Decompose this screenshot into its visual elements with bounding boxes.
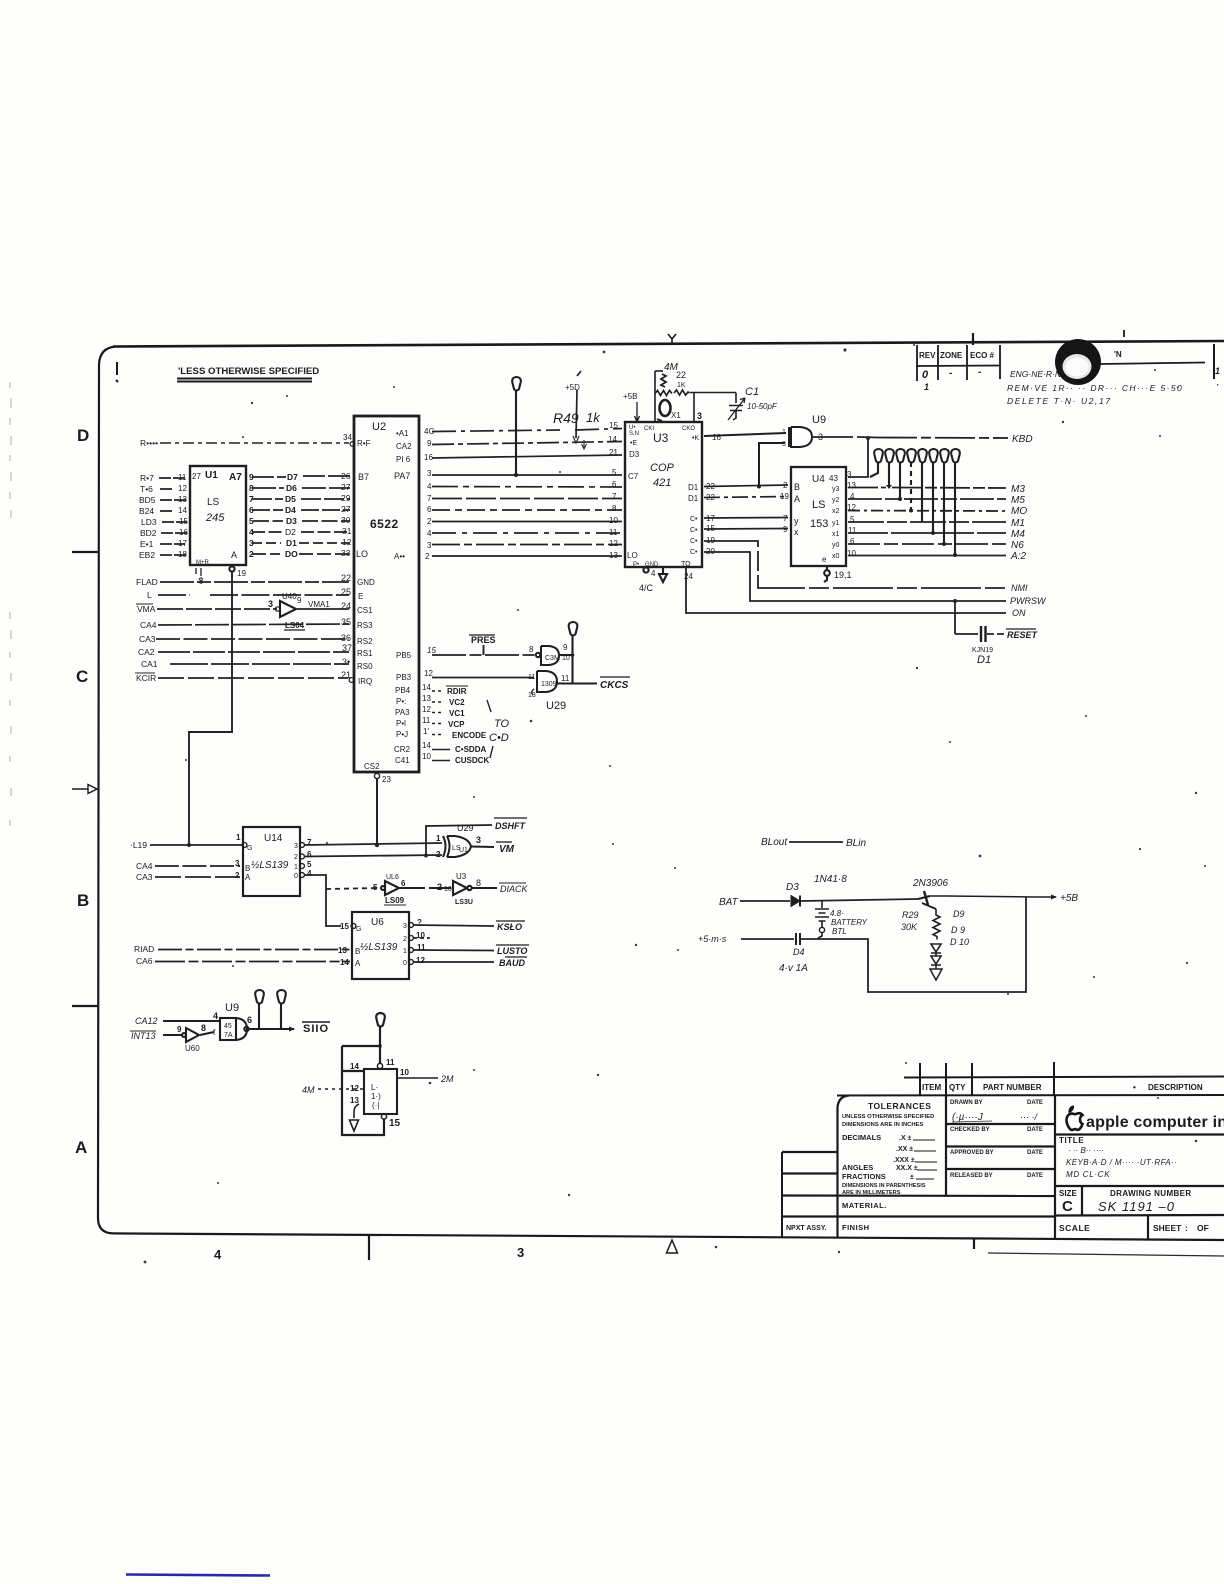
svg-text:•E: •E [630, 440, 637, 447]
svg-text:BLout: BLout [761, 837, 788, 848]
svg-text:34: 34 [343, 433, 352, 442]
svg-text:4: 4 [651, 569, 656, 578]
svg-text:31: 31 [342, 526, 352, 536]
svg-text:U2: U2 [372, 421, 386, 433]
svg-text:15: 15 [179, 517, 188, 526]
svg-text:'LESS OTHERWISE SPECIFIED: 'LESS OTHERWISE SPECIFIED [178, 366, 319, 377]
svg-text:LD3: LD3 [141, 517, 157, 527]
svg-text:421: 421 [653, 477, 671, 489]
svg-text:245: 245 [205, 512, 225, 524]
svg-text:26: 26 [341, 471, 351, 481]
svg-text:D4: D4 [793, 947, 805, 957]
svg-text:36: 36 [341, 633, 351, 643]
svg-text:CA2: CA2 [396, 442, 412, 451]
svg-text:SK 1191 –0: SK 1191 –0 [1098, 1199, 1175, 1214]
svg-text:4: 4 [307, 869, 312, 878]
svg-text:2: 2 [403, 936, 407, 943]
wire KCIR to IRQ [158, 677, 348, 679]
connector flags row (8) [870, 449, 960, 557]
svg-text:D1: D1 [286, 538, 297, 548]
svg-text:L: L [147, 590, 152, 600]
svg-text:153: 153 [810, 518, 828, 530]
svg-text:U40: U40 [282, 592, 297, 601]
svg-text:B24: B24 [139, 506, 154, 516]
svg-text:A: A [245, 873, 251, 882]
zone tick left y1006 [72, 1005, 98, 1007]
svg-text:R29: R29 [902, 910, 919, 920]
svg-text:y3: y3 [832, 486, 840, 493]
U16 output nets KSTO/LUSTO/BAUD [413, 925, 494, 962]
sheet border frame [98, 347, 115, 1234]
svg-text:1: 1 [782, 429, 786, 436]
svg-text:PB3: PB3 [396, 673, 412, 682]
svg-text:6: 6 [249, 505, 254, 515]
wire L [158, 594, 349, 596]
svg-text:A: A [75, 1138, 87, 1157]
svg-text:1k: 1k [586, 410, 601, 425]
svg-text:D5: D5 [285, 494, 296, 504]
svg-text:2N3906: 2N3906 [912, 878, 948, 889]
svg-text:DO: DO [285, 549, 298, 559]
svg-text:C1: C1 [745, 386, 759, 398]
svg-text:XX.X ±: XX.X ± [896, 1165, 918, 1172]
svg-text:DESCRIPTION: DESCRIPTION [1148, 1083, 1203, 1092]
svg-text:2: 2 [436, 850, 441, 859]
svg-text:CA3: CA3 [136, 872, 153, 882]
svg-text:6: 6 [401, 879, 406, 888]
svg-text:M5: M5 [1011, 495, 1025, 506]
buffer U1 LS245 [190, 466, 246, 565]
svg-text:DATE: DATE [1027, 1127, 1043, 1133]
svg-text:1K: 1K [677, 382, 686, 389]
svg-text:1: 1 [294, 864, 298, 871]
svg-text:•K: •K [692, 435, 699, 442]
U2 IRQ pin bubble [349, 678, 354, 683]
svg-text:4M: 4M [302, 1085, 315, 1095]
gate U29a [529, 643, 573, 665]
svg-text:D3: D3 [286, 516, 297, 526]
svg-text:7: 7 [783, 514, 788, 523]
svg-text:6: 6 [307, 850, 312, 859]
svg-text:3: 3 [476, 835, 481, 845]
transistor Q1 2N3906 [912, 878, 1078, 909]
wire CA4 [158, 624, 349, 625]
svg-text:apple computer in: apple computer in [1086, 1114, 1224, 1131]
svg-text:14: 14 [422, 741, 431, 750]
svg-text:CHECKED BY: CHECKED BY [950, 1127, 990, 1133]
VIA U2 6522 [354, 416, 419, 772]
svg-text:4: 4 [214, 1247, 222, 1262]
svg-text:KJN19: KJN19 [972, 647, 993, 654]
svg-text:2: 2 [427, 517, 432, 526]
svg-text:P•: P• [633, 562, 639, 568]
svg-text:6: 6 [247, 1015, 252, 1025]
svg-text:PB5: PB5 [396, 651, 412, 660]
wire PB5 to U29a [396, 646, 536, 660]
svg-text:4: 4 [213, 1011, 218, 1021]
svg-text:U9: U9 [225, 1002, 239, 1014]
wire VMA1 to CS1 [297, 608, 349, 610]
wires into U14 [150, 845, 242, 877]
svg-text:VC2: VC2 [449, 698, 465, 707]
zone tick bottom x369 [368, 1236, 370, 1260]
svg-text:C•: C• [690, 516, 698, 523]
svg-text:.XXX ±: .XXX ± [893, 1157, 915, 1164]
svg-text:+5B: +5B [623, 392, 637, 401]
bus D7-D0 from U1 to U2 [252, 476, 350, 554]
svg-text:13: 13 [338, 946, 347, 955]
net DSHFT [426, 818, 527, 855]
svg-text:BAUD: BAUD [499, 958, 525, 968]
svg-text:G: G [247, 845, 252, 852]
svg-text:22: 22 [676, 370, 686, 380]
svg-text:15: 15 [609, 421, 618, 430]
svg-text:B: B [77, 891, 89, 910]
svg-text:A: A [355, 959, 361, 968]
svg-text:U3: U3 [653, 431, 669, 445]
svg-text:1': 1' [423, 727, 429, 736]
svg-text:D3: D3 [629, 450, 640, 459]
wire RES to U2 pin 34 [140, 433, 355, 448]
svg-text:NMI: NMI [1011, 583, 1028, 593]
svg-text:3: 3 [268, 599, 273, 609]
svg-text:RDIR: RDIR [447, 687, 467, 696]
svg-text:12: 12 [609, 539, 618, 548]
svg-text:B: B [794, 482, 800, 492]
punch hole [1055, 339, 1101, 385]
svg-text:CS2: CS2 [364, 762, 380, 771]
svg-text:DRAWN BY: DRAWN BY [950, 1100, 983, 1106]
svg-text:SHEET: SHEET [1153, 1223, 1182, 1233]
svg-text:•: • [1133, 1083, 1136, 1092]
wire CA3 [156, 638, 349, 640]
svg-text:16: 16 [179, 528, 188, 537]
svg-text:13: 13 [528, 692, 536, 699]
svg-text:P•:: P•: [396, 697, 406, 706]
svg-text:ARE IN MILLIMETERS: ARE IN MILLIMETERS [842, 1190, 901, 1196]
U2 right stub nets RDIR..CUSDCK [432, 691, 450, 761]
svg-text:B: B [355, 947, 360, 956]
svg-text:VC1: VC1 [449, 709, 465, 718]
svg-text:4·v 1A: 4·v 1A [779, 963, 808, 974]
svg-text:23: 23 [382, 775, 391, 784]
svg-text:FRACTIONS: FRACTIONS [842, 1172, 886, 1181]
svg-text:3: 3 [697, 411, 702, 421]
svg-text:ECO #: ECO # [970, 351, 995, 360]
svg-text:10: 10 [400, 1068, 409, 1077]
svg-text:'N: 'N [1114, 350, 1122, 359]
svg-text:1309: 1309 [541, 681, 557, 688]
net CKCS [600, 677, 630, 691]
svg-text:13: 13 [422, 694, 431, 703]
svg-text:3: 3 [782, 441, 786, 448]
svg-text:D3: D3 [786, 882, 799, 893]
microcontroller U3 COP421 [625, 422, 702, 567]
svg-text:CA4: CA4 [136, 861, 153, 871]
svg-text:4: 4 [427, 529, 432, 538]
svg-text:22: 22 [706, 482, 715, 491]
svg-text:DATE: DATE [1027, 1150, 1043, 1156]
svg-text:PB4: PB4 [395, 686, 411, 695]
svg-text:SIZE: SIZE [1059, 1189, 1077, 1198]
svg-text:RELEASED BY: RELEASED BY [950, 1173, 993, 1179]
svg-text:U60: U60 [185, 1044, 200, 1053]
wire CA2 [158, 651, 349, 653]
svg-text:19: 19 [237, 569, 246, 578]
svg-text:LS: LS [207, 497, 220, 508]
svg-text:12: 12 [422, 705, 431, 714]
feedback loop wire [342, 1046, 384, 1135]
svg-text:x: x [794, 527, 799, 537]
svg-text:C•D: C•D [489, 732, 509, 744]
svg-text:MATERIAL.: MATERIAL. [842, 1201, 887, 1210]
svg-text:8: 8 [529, 645, 534, 654]
svg-text:1: 1 [1215, 366, 1220, 376]
svg-text:14: 14 [340, 958, 349, 967]
svg-text:1: 1 [924, 382, 929, 392]
svg-text:½LS139: ½LS139 [251, 860, 289, 871]
svg-text:5: 5 [307, 860, 312, 869]
svg-text:33: 33 [341, 548, 351, 558]
svg-text:T•6: T•6 [140, 484, 153, 494]
svg-text:C•SDDA: C•SDDA [455, 745, 486, 754]
svg-text:BTL: BTL [832, 927, 847, 936]
svg-text:30K: 30K [901, 922, 918, 932]
svg-text:PI 6: PI 6 [396, 455, 411, 464]
decoder U4 LS153 [791, 467, 846, 566]
svg-text:CKO: CKO [682, 426, 695, 432]
svg-text:x1: x1 [832, 531, 840, 538]
svg-text:KCIR: KCIR [136, 673, 156, 683]
svg-text:U14: U14 [264, 833, 283, 844]
svg-text:12: 12 [178, 484, 187, 493]
svg-text:±: ± [910, 1174, 914, 1181]
small empty table at left [781, 1152, 783, 1238]
connector flag to PA7 line [512, 377, 521, 477]
svg-text:U29: U29 [457, 823, 474, 833]
svg-text:14: 14 [178, 506, 187, 515]
svg-text:D4: D4 [285, 505, 296, 515]
svg-text:45: 45 [224, 1023, 232, 1030]
svg-text:6522: 6522 [370, 517, 399, 531]
pin13 ground hook [350, 1104, 360, 1131]
U4 enable ground pin [824, 566, 852, 582]
svg-text:CKI: CKI [644, 426, 654, 432]
svg-text:D7: D7 [287, 472, 298, 482]
svg-text:LS09: LS09 [385, 896, 405, 905]
svg-text:BAT: BAT [719, 897, 739, 908]
svg-text:3: 3 [427, 469, 432, 478]
svg-text:CS1: CS1 [357, 606, 373, 615]
net BLout-BLin [761, 837, 866, 849]
svg-text:A7: A7 [229, 472, 242, 483]
svg-text:13: 13 [178, 495, 187, 504]
svg-text:4.8·: 4.8· [830, 909, 844, 918]
net BAT [719, 897, 790, 908]
svg-text:14: 14 [608, 435, 617, 444]
4M input [318, 1088, 364, 1090]
svg-text:14: 14 [422, 683, 431, 692]
svg-text:G: G [356, 926, 361, 933]
wire VMA to inverter [157, 608, 277, 610]
svg-text:3: 3 [427, 541, 432, 550]
XOR gate U19b (VM) [436, 823, 494, 859]
svg-text:U29: U29 [546, 700, 566, 712]
svg-text:DELETE T·N· U2,17: DELETE T·N· U2,17 [1007, 396, 1112, 406]
svg-text:D 10: D 10 [950, 937, 969, 947]
zone tick left y552 [72, 551, 98, 553]
svg-text:TOLERANCES: TOLERANCES [868, 1101, 931, 1111]
svg-text:NPXT ASSY.: NPXT ASSY. [786, 1225, 827, 1232]
svg-text:UL6: UL6 [386, 874, 399, 881]
svg-text:DATE: DATE [1027, 1173, 1043, 1179]
svg-text:10: 10 [422, 752, 431, 761]
svg-text:APPROVED BY: APPROVED BY [950, 1150, 994, 1156]
svg-text:CA3: CA3 [139, 634, 156, 644]
svg-text:DECIMALS: DECIMALS [842, 1133, 881, 1142]
svg-text:1: 1 [403, 948, 407, 955]
svg-text:DIMENSIONS ARE IN INCHES: DIMENSIONS ARE IN INCHES [842, 1122, 923, 1128]
scan specks [10, 382, 11, 826]
svg-text:VMA: VMA [137, 604, 156, 614]
svg-text:0: 0 [403, 960, 407, 967]
svg-text:E: E [358, 592, 363, 601]
wire PB3 to U29b [396, 669, 534, 682]
wires NMI / PWRSW / ON [686, 541, 1006, 634]
flags on SIIO line [255, 990, 286, 1029]
svg-text:D 9: D 9 [951, 925, 965, 935]
wires into U16 [155, 950, 350, 962]
svg-text:VCP: VCP [448, 720, 465, 729]
svg-text:C: C [1062, 1198, 1073, 1215]
stray line under title block [988, 1253, 1224, 1256]
svg-text:7A: 7A [224, 1032, 233, 1039]
svg-text:1·): 1·) [371, 1092, 381, 1101]
svg-text:11: 11 [528, 674, 535, 681]
svg-text:+5B: +5B [1060, 893, 1078, 904]
inverter U60 [163, 1023, 214, 1053]
svg-text:x0: x0 [832, 553, 840, 560]
wire CA1 [170, 663, 349, 665]
svg-text:10: 10 [562, 655, 570, 662]
wire KBD [813, 434, 1033, 477]
svg-text:9: 9 [783, 525, 788, 534]
svg-text:y2: y2 [832, 497, 840, 504]
svg-text:21: 21 [609, 448, 618, 457]
flag + vertical joining U29 outputs [569, 622, 578, 684]
svg-text:ENCODE: ENCODE [452, 731, 487, 740]
svg-text:LO: LO [356, 549, 368, 559]
svg-text:S.N: S.N [629, 431, 639, 437]
svg-text:A••: A•• [394, 552, 405, 561]
svg-text:DIMENSIONS IN PARENTHESIS: DIMENSIONS IN PARENTHESIS [842, 1183, 926, 1189]
control wires into U2 left [156, 582, 349, 678]
svg-text:7: 7 [249, 494, 254, 504]
svg-text:15: 15 [389, 1118, 401, 1129]
U1 bottom pin stubs [196, 568, 201, 576]
svg-text:BATTERY: BATTERY [831, 918, 868, 927]
svg-text:1: 1 [436, 834, 441, 843]
zone Y mark top x672 [668, 334, 676, 345]
svg-text:BD2: BD2 [140, 528, 157, 538]
svg-text:R•7: R•7 [140, 473, 154, 483]
svg-text:A: A [794, 494, 800, 504]
wires U3 to U4 [704, 482, 788, 556]
net PRES tap [469, 635, 496, 655]
svg-text:DSHFT: DSHFT [495, 821, 526, 831]
svg-text:2: 2 [425, 552, 430, 561]
svg-text:5: 5 [373, 883, 378, 892]
U14 output rows [304, 843, 442, 926]
svg-text:PWRSW: PWRSW [1010, 596, 1047, 606]
svg-text:5: 5 [612, 468, 617, 477]
svg-text:COP: COP [650, 462, 675, 474]
svg-text:8: 8 [201, 1023, 206, 1033]
net VM [496, 842, 515, 855]
svg-text:RS3: RS3 [357, 621, 373, 630]
svg-text:RIAD: RIAD [134, 944, 154, 954]
decoder U14 LS139 [242, 827, 304, 896]
svg-text:7: 7 [427, 494, 432, 503]
svg-text:B: B [245, 864, 250, 873]
svg-text:D6: D6 [286, 483, 297, 493]
svg-text:TO: TO [681, 561, 691, 568]
U1 pin19 circle [229, 566, 234, 571]
svg-text:IRQ: IRQ [358, 677, 372, 686]
wire U1 pin19 down-jog to CS19 row [187, 572, 232, 847]
svg-text:12: 12 [342, 537, 352, 547]
svg-text:R49: R49 [553, 410, 579, 426]
svg-text:CA6: CA6 [136, 956, 153, 966]
apple computer logo [1066, 1106, 1224, 1132]
svg-text:SCALE: SCALE [1059, 1223, 1090, 1233]
svg-text:U6: U6 [371, 917, 384, 928]
svg-text:11: 11 [561, 674, 570, 683]
svg-text:OF: OF [1197, 1223, 1209, 1233]
svg-text:ITEM: ITEM [922, 1083, 941, 1092]
diode D3 1N4148 [786, 874, 918, 907]
svg-text:11: 11 [609, 528, 618, 537]
svg-text:TO: TO [494, 718, 510, 730]
svg-text:CUSDCK: CUSDCK [455, 756, 489, 765]
svg-text:2: 2 [294, 854, 298, 861]
svg-text:22: 22 [706, 493, 715, 502]
svg-text:LUSTO: LUSTO [497, 946, 527, 956]
svg-text:U3: U3 [456, 872, 467, 881]
svg-text:ANGLES: ANGLES [842, 1163, 873, 1172]
svg-text:PA7: PA7 [394, 471, 410, 481]
svg-text:M3: M3 [1011, 484, 1025, 495]
svg-text:9: 9 [427, 439, 432, 448]
svg-text:U1: U1 [459, 847, 468, 854]
svg-text:3: 3 [847, 470, 852, 479]
zone arrow left y789 [72, 785, 97, 794]
svg-text:6: 6 [427, 505, 432, 514]
svg-text:43: 43 [829, 474, 838, 483]
svg-text:27: 27 [192, 472, 201, 481]
svg-text:ZONE: ZONE [940, 351, 963, 360]
svg-text:M1: M1 [1011, 518, 1025, 529]
svg-text:R••••: R•••• [140, 438, 158, 448]
svg-text:11: 11 [422, 716, 431, 725]
net SIIO [302, 1022, 330, 1035]
svg-text:KEYB·A·D / M···· ·UT·RFA··: KEYB·A·D / M···· ·UT·RFA·· [1066, 1158, 1177, 1167]
svg-text:RESET: RESET [1007, 630, 1039, 640]
svg-text:3: 3 [294, 843, 298, 850]
svg-text:10: 10 [444, 886, 452, 893]
U3 bottom pins / ground [639, 567, 693, 593]
zone arrow bottom x672 [667, 1240, 678, 1253]
